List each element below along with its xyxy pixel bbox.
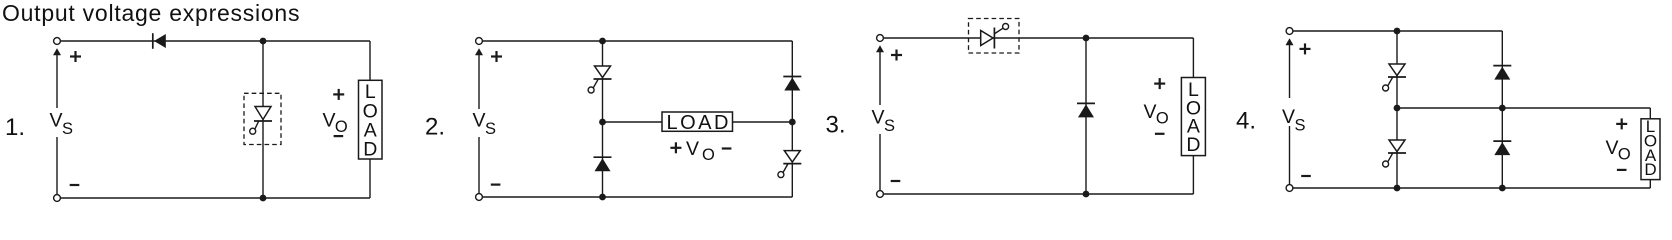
svg-text:D: D	[1644, 160, 1656, 179]
svg-text:V: V	[1144, 101, 1157, 123]
svg-text:V: V	[686, 138, 699, 160]
svg-text:4.: 4.	[1236, 108, 1256, 135]
svg-text:2.: 2.	[425, 114, 445, 141]
svg-text:V: V	[323, 110, 336, 132]
svg-text:S: S	[62, 120, 73, 138]
svg-text:S: S	[485, 120, 496, 138]
svg-text:V: V	[50, 110, 63, 132]
svg-text:LOAD: LOAD	[667, 112, 731, 134]
svg-text:S: S	[1295, 116, 1306, 134]
svg-text:3.: 3.	[826, 112, 846, 139]
svg-text:D: D	[1186, 134, 1200, 156]
svg-text:O: O	[702, 146, 715, 164]
svg-text:O: O	[335, 118, 348, 136]
svg-text:S: S	[884, 117, 895, 135]
svg-text:V: V	[872, 107, 885, 129]
svg-text:D: D	[363, 139, 377, 161]
svg-text:Output voltage expressions: Output voltage expressions	[2, 0, 300, 26]
svg-text:O: O	[1156, 110, 1169, 128]
svg-text:V: V	[1606, 137, 1619, 159]
svg-text:V: V	[1282, 106, 1295, 128]
svg-text:O: O	[1618, 145, 1631, 163]
svg-text:V: V	[473, 110, 486, 132]
svg-text:1.: 1.	[5, 114, 25, 141]
